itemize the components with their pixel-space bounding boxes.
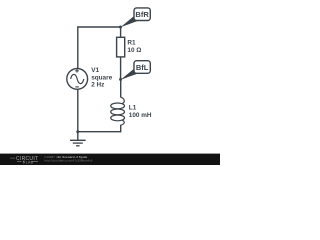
wire: right rail bottom corner up to inductor lead	[120, 125, 122, 133]
junction: node BfR	[119, 26, 122, 29]
ground symbol	[70, 132, 86, 146]
junction: ground node	[76, 130, 79, 133]
svg-text:2 Hz: 2 Hz	[91, 81, 104, 88]
svg-text:square: square	[91, 74, 112, 81]
wire: bottom horizontal from ground node to right rail	[78, 131, 121, 133]
svg-text:BfL: BfL	[136, 63, 149, 72]
flag BfR (net label with pointer tail)	[121, 8, 151, 27]
canvas background	[0, 0, 220, 165]
label V1 value (V1 / square / 2 Hz)	[91, 67, 112, 88]
flag BfL (net label with pointer tail)	[121, 61, 151, 80]
footer logo CIRCUIT LAB	[10, 156, 38, 164]
junction: node BfL	[119, 78, 122, 81]
inductor L1 (coil)	[111, 79, 125, 125]
svg-text:LAB: LAB	[26, 160, 34, 164]
voltage source V1 (sine symbol with + and -)	[67, 69, 88, 90]
resistor R1 (body and leads)	[117, 27, 125, 79]
svg-text:V1: V1	[91, 67, 99, 74]
svg-text:10 Ω: 10 Ω	[127, 47, 141, 54]
footer title text	[45, 155, 93, 163]
svg-text:100 mH: 100 mH	[129, 112, 152, 119]
svg-text:BfR: BfR	[135, 10, 149, 19]
svg-text:R1: R1	[127, 40, 136, 47]
footer bar (black watermark strip)	[0, 154, 220, 165]
wire: left rail lower (V1 bottom terminal down to ground node)	[77, 89, 79, 131]
label R1 value (R1 / 10 ohm)	[127, 40, 141, 54]
svg-text:http://circuitlab.com/c47c298b: http://circuitlab.com/c47c298ban4x6	[45, 159, 93, 163]
svg-text:L1: L1	[129, 104, 137, 111]
wire: left rail upper (top corner down to V1 top terminal)	[77, 26, 79, 68]
label L1 value (L1 / 100 mH)	[129, 104, 152, 118]
wire: top horizontal from left rail to node BfR	[78, 26, 121, 28]
